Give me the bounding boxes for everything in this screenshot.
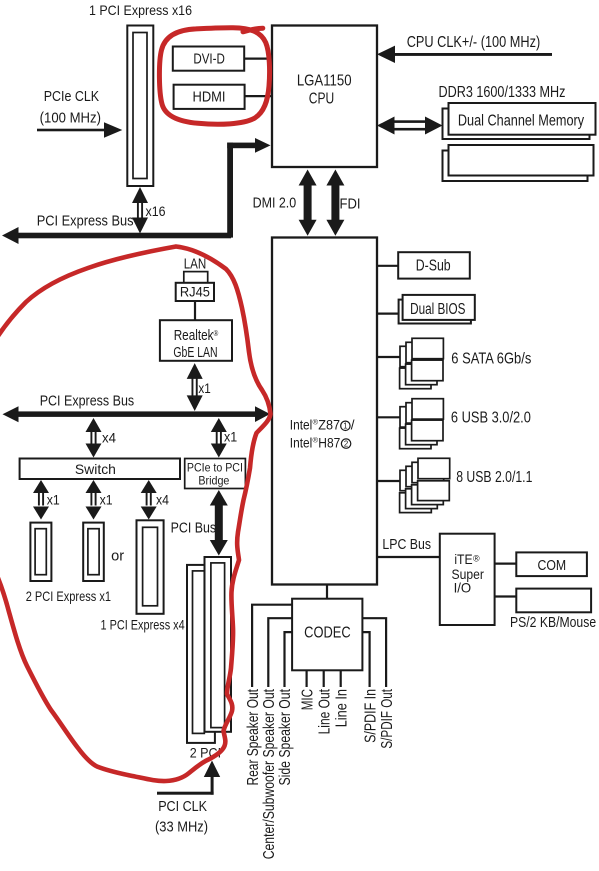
arrow x1 Realtek to PCI Express Bus (187, 363, 211, 411)
wire S/PDIF Out (362, 618, 386, 687)
D-Sub box (398, 252, 470, 278)
label PCIe CLK (100 MHz) (40, 88, 101, 127)
wire HDMI to CPU (245, 95, 273, 97)
wire Super IO to PS/2 (495, 595, 517, 597)
wire Super IO to COM (495, 562, 517, 564)
svg-text:LAN: LAN (184, 257, 207, 273)
wire Rear Speaker Out (252, 605, 292, 687)
wire chipset to SATA cluster (377, 356, 401, 358)
arrow CPU CLK into CPU (377, 34, 552, 63)
wire Center/Subwoofer Speaker Out (268, 618, 292, 687)
svg-text:CODEC: CODEC (304, 625, 351, 642)
memory module second slot (443, 145, 594, 181)
svg-text:Center/Subwoofer Speaker Out: Center/Subwoofer Speaker Out (261, 689, 278, 860)
Dual BIOS box (399, 295, 475, 324)
label PCI CLK (33 MHz) (155, 798, 208, 836)
svg-text:Line Out: Line Out (316, 689, 333, 735)
svg-text:Z87: Z87 (318, 418, 340, 433)
arrow x1 Switch to slot A (33, 480, 60, 520)
wire Side Speaker Out (285, 632, 293, 687)
wire chipset to D-Sub (377, 265, 398, 267)
svg-text:2 PCI Express x1: 2 PCI Express x1 (26, 588, 111, 604)
svg-text:H87: H87 (318, 435, 340, 450)
Realtek GbE LAN box (160, 320, 232, 361)
svg-text:1 PCI Express x4: 1 PCI Express x4 (101, 617, 185, 633)
svg-text:Realtek®: Realtek® (174, 328, 219, 344)
svg-text:x4: x4 (156, 493, 169, 508)
svg-text:(33 MHz): (33 MHz) (155, 819, 208, 836)
wire chipset to Dual BIOS (377, 313, 399, 315)
svg-text:D-Sub: D-Sub (416, 257, 451, 274)
PCI slot right (205, 557, 232, 732)
svg-text:LGA1150: LGA1150 (297, 72, 352, 89)
double arrow CPU to memory (377, 117, 443, 135)
wire S/PDIF In (362, 632, 369, 687)
wire LPC Bus chipset to Super IO (377, 556, 440, 558)
svg-text:PS/2 KB/Mouse: PS/2 KB/Mouse (510, 614, 596, 631)
svg-text:MIC: MIC (299, 689, 316, 710)
wire chipset to USB3 cluster (377, 416, 401, 418)
arrow x4 Switch to slot C (141, 480, 170, 520)
svg-text:Side Speaker Out: Side Speaker Out (277, 689, 294, 786)
wire Line In (340, 670, 342, 687)
USB 3.0 ports cluster (400, 399, 444, 449)
svg-text:2: 2 (344, 440, 348, 449)
svg-text:1 PCI Express x16: 1 PCI Express x16 (89, 2, 192, 18)
svg-text:LPC Bus: LPC Bus (382, 536, 431, 553)
arrow PCI Bus bridge to PCI slots (210, 490, 228, 556)
arrow x4 bus to Switch (86, 418, 117, 458)
arrow x16 slot to PCI Express Bus (132, 187, 166, 234)
red loop around PCIe/PCI subsystem (0, 247, 271, 782)
SATA ports cluster (400, 338, 444, 388)
svg-text:x4: x4 (102, 431, 116, 446)
wire chipset to CODEC (326, 585, 328, 599)
svg-text:/: / (351, 418, 355, 433)
iTE Super I/O box (440, 534, 495, 625)
svg-text:Switch: Switch (75, 461, 116, 477)
svg-text:x1: x1 (198, 380, 211, 396)
svg-text:PCI CLK: PCI CLK (158, 798, 207, 815)
CODEC box (292, 599, 362, 671)
svg-text:Rear Speaker Out: Rear Speaker Out (245, 689, 262, 786)
svg-text:x1: x1 (100, 493, 113, 508)
USB 2.0 ports cluster (400, 458, 450, 512)
svg-text:x1: x1 (47, 493, 60, 508)
svg-text:PCI Bus: PCI Bus (171, 520, 217, 537)
svg-text:iTE: iTE (454, 551, 472, 567)
HDMI box (174, 85, 245, 109)
svg-text:PCI Express Bus: PCI Express Bus (40, 393, 135, 410)
svg-text:1: 1 (343, 422, 347, 431)
svg-text:6 SATA 6Gb/s: 6 SATA 6Gb/s (451, 351, 531, 368)
PCI slot left (187, 565, 215, 743)
LAN connector tab (184, 272, 208, 283)
svg-text:x1: x1 (224, 429, 237, 445)
svg-text:CPU CLK+/- (100 MHz): CPU CLK+/- (100 MHz) (407, 34, 541, 51)
svg-text:6 USB 3.0/2.0: 6 USB 3.0/2.0 (451, 409, 531, 426)
PCI Express x4 slot C (137, 520, 164, 614)
svg-text:x16: x16 (146, 204, 166, 219)
wire chipset to USB2 cluster (377, 480, 401, 482)
CPU box LGA1150 (272, 26, 377, 168)
svg-text:(100 MHz): (100 MHz) (40, 110, 101, 127)
COM box (516, 552, 587, 576)
wire RJ45 to Realtek (194, 301, 196, 320)
wire Line Out (323, 670, 325, 687)
PCI Express x1 slot A (30, 523, 51, 581)
Switch box (20, 459, 180, 480)
svg-text:FDI: FDI (340, 196, 361, 213)
svg-text:Intel: Intel (290, 418, 313, 433)
PS/2 connector box (516, 589, 591, 613)
arrow x1 bus to PCIe-to-PCI bridge (211, 418, 238, 458)
svg-text:DVI-D: DVI-D (193, 50, 225, 67)
wire MIC (306, 670, 308, 687)
svg-text:or: or (111, 549, 124, 565)
svg-text:Line In: Line In (333, 689, 350, 727)
svg-text:S/PDIF Out: S/PDIF Out (379, 689, 396, 749)
DVI-D box (173, 47, 244, 71)
arrow x1 Switch to slot B (86, 480, 113, 520)
svg-text:RJ45: RJ45 (180, 284, 210, 300)
arrow FDI CPU to chipset (326, 170, 344, 236)
svg-text:COM: COM (537, 557, 566, 574)
svg-text:®: ® (473, 554, 480, 564)
svg-text:GbE LAN: GbE LAN (173, 345, 217, 361)
svg-text:HDMI: HDMI (193, 89, 226, 106)
PCI Express Bus middle (3, 406, 271, 422)
svg-text:PCI Express Bus: PCI Express Bus (37, 213, 134, 230)
svg-text:I/O: I/O (454, 579, 472, 595)
svg-text:Dual BIOS: Dual BIOS (410, 301, 465, 318)
chipset box Intel Z87 / H87 (272, 238, 377, 585)
svg-text:Intel: Intel (290, 435, 313, 450)
red loop around DVI-D and HDMI (159, 28, 269, 125)
svg-text:8 USB 2.0/1.1: 8 USB 2.0/1.1 (456, 469, 532, 486)
PCI Express x16 slot (127, 26, 153, 187)
svg-text:CPU: CPU (309, 91, 334, 108)
arrow PCI CLK into PCI slots (157, 761, 220, 795)
svg-text:DDR3 1600/1333 MHz: DDR3 1600/1333 MHz (439, 84, 566, 101)
svg-text:PCIe CLK: PCIe CLK (44, 88, 99, 105)
arrow PCIe CLK into x16 slot (37, 122, 122, 137)
svg-text:PCIe to PCI: PCIe to PCI (187, 460, 243, 474)
svg-text:Dual Channel Memory: Dual Channel Memory (458, 112, 584, 129)
memory module Dual Channel Memory (443, 103, 596, 139)
svg-text:Bridge: Bridge (198, 473, 229, 487)
arrow DMI 2.0 CPU to chipset (299, 170, 317, 236)
PCI Express x1 slot B (83, 523, 104, 581)
PCI Express Bus top (2, 138, 271, 244)
wire DVI-D to CPU (244, 57, 273, 59)
svg-text:DMI 2.0: DMI 2.0 (253, 195, 297, 212)
RJ45 box (176, 283, 214, 301)
PCIe to PCI Bridge box (185, 459, 246, 489)
svg-text:S/PDIF In: S/PDIF In (362, 689, 379, 743)
